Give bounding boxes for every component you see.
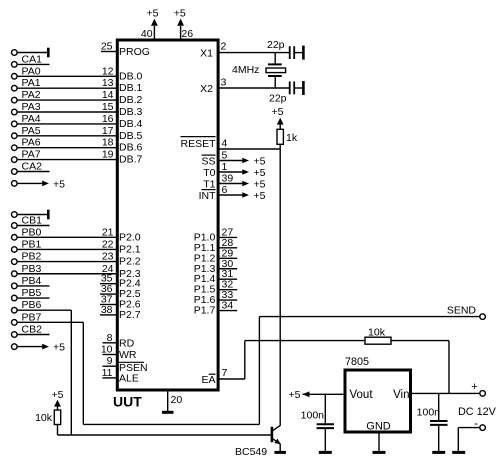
terminal circle PA3 [12, 109, 18, 115]
svg-text:38: 38 [101, 304, 113, 316]
wire PB0 to pin 21 [17, 236, 116, 238]
pin 2 wire (X1) [219, 52, 289, 54]
wire PA2 to pin 14 [17, 99, 116, 101]
svg-text:1k: 1k [286, 132, 298, 144]
svg-text:RD: RD [119, 337, 135, 349]
U2 GND lead [378, 434, 380, 452]
terminal circle PB0 [12, 235, 18, 241]
node RESET to transistor collector wire [279, 149, 281, 425]
wire PB7 vertical drop [82, 322, 84, 424]
svg-text:INT: INT [199, 190, 217, 202]
+5 arrow (INT) [242, 192, 249, 198]
terminal circle PB2 [12, 259, 18, 265]
svg-text:EA: EA [201, 374, 215, 386]
ground (C in) [432, 451, 445, 454]
pin 11 stub (ALE) [103, 377, 117, 379]
T-bar terminator (CA1 row) [47, 48, 50, 58]
svg-text:4: 4 [222, 138, 228, 150]
svg-text:8: 8 [107, 332, 113, 344]
svg-text:+: + [471, 381, 477, 393]
svg-text:P1.7: P1.7 [194, 305, 216, 317]
svg-text:13: 13 [102, 77, 114, 89]
wire CA1 stub [17, 63, 49, 65]
svg-text:PB7: PB7 [22, 311, 42, 323]
terminal circle +5 supply (upper) [12, 181, 18, 187]
svg-text:34: 34 [222, 300, 234, 312]
pin 27 stub (P1.0) [219, 236, 237, 238]
svg-text:+5: +5 [53, 178, 65, 190]
pin 39 wire (T1) [219, 183, 243, 185]
capacitor C bottom 22p right plate [293, 82, 295, 95]
svg-text:7805: 7805 [345, 356, 369, 368]
wire to T terminator (CA1 row) [17, 52, 47, 54]
svg-text:PROG: PROG [119, 46, 150, 58]
svg-text:18: 18 [102, 137, 114, 149]
svg-text:22p: 22p [269, 93, 287, 105]
svg-text:PA0: PA0 [22, 65, 41, 77]
svg-text:+5: +5 [53, 342, 65, 354]
svg-text:26: 26 [181, 28, 193, 40]
svg-text:PB4: PB4 [22, 275, 42, 287]
pin 28 stub (P1.1) [219, 247, 237, 249]
+5 arrow (above R 1k) [277, 118, 284, 125]
pin 10 stub (WR) [103, 354, 117, 356]
C 100n (in) top plate [430, 420, 448, 422]
svg-text:CB1: CB1 [22, 215, 43, 227]
pin 36 stub [100, 293, 116, 295]
wire PA3 to pin 15 [17, 111, 116, 113]
+5 arrow (above R 10k base) [54, 400, 61, 407]
+5 arrow (SS) [242, 158, 249, 164]
ground (emitter) [274, 451, 286, 454]
wire PB6 horizontal [17, 309, 71, 311]
svg-text:21: 21 [102, 226, 114, 238]
crystal body [266, 68, 286, 73]
svg-text:9: 9 [107, 355, 113, 367]
wire emitter to ground [279, 444, 281, 452]
crystal bottom lead [274, 76, 276, 88]
wire PB1 to pin 22 [17, 248, 116, 250]
C 100n (out) bottom plate [317, 427, 334, 429]
svg-text:22p: 22p [267, 39, 285, 51]
terminal circle PA7 [12, 157, 18, 163]
svg-text:UUT: UUT [113, 394, 142, 410]
resistor R 10k (base) body [54, 410, 60, 425]
pin 40 Vcc lead [153, 26, 155, 39]
svg-text:SEND: SEND [447, 305, 477, 317]
terminal circle CB2 [12, 332, 18, 338]
R 1k top lead [279, 124, 281, 129]
terminal circle PB3 [12, 271, 18, 277]
svg-text:PB1: PB1 [22, 238, 42, 250]
svg-text:+5: +5 [254, 190, 266, 202]
pin 7 wire (EA) [219, 378, 245, 380]
wire PA0 to pin 12 [17, 75, 116, 77]
wire PA1 to pin 13 [17, 87, 116, 89]
pin 33 stub (P1.6) [219, 299, 237, 301]
terminal circle SEND [480, 314, 486, 320]
svg-text:DB.0: DB.0 [119, 70, 143, 82]
wire PB7 under chip [83, 423, 259, 425]
svg-text:Vin: Vin [393, 389, 409, 401]
svg-text:14: 14 [102, 89, 114, 101]
terminal circle (CA1 strobe input) [12, 50, 18, 56]
svg-text:RESET: RESET [180, 138, 216, 150]
wire Vin [412, 392, 480, 394]
svg-text:1: 1 [222, 161, 228, 173]
wire to +5 (lower) [17, 346, 42, 348]
wire base feed [58, 434, 271, 436]
svg-text:+5: +5 [174, 8, 186, 20]
transistor Q1 emitter [273, 439, 280, 444]
resistor R 1k body [277, 129, 283, 144]
capacitor C top 22p right plate [293, 46, 295, 59]
pin 8 stub (RD) [103, 342, 117, 344]
svg-text:CA2: CA2 [22, 161, 43, 173]
terminal circle PB4 [12, 283, 18, 289]
svg-text:X1: X1 [200, 48, 213, 60]
svg-text:WR: WR [119, 349, 137, 361]
svg-text:25: 25 [101, 41, 113, 53]
svg-text:+5: +5 [254, 156, 266, 168]
terminal circle PA0 [12, 74, 18, 80]
svg-text:5: 5 [222, 150, 228, 162]
svg-text:PB5: PB5 [22, 287, 42, 299]
wire EA up to 10k [244, 341, 246, 379]
svg-text:P2.0: P2.0 [119, 231, 141, 243]
svg-text:DB.5: DB.5 [119, 130, 143, 142]
wire cap to terminator (bottom) [295, 87, 302, 89]
pin 20 lead [167, 391, 169, 411]
svg-text:10k: 10k [368, 327, 386, 339]
svg-text:DB.2: DB.2 [119, 94, 143, 106]
svg-text:SS: SS [201, 156, 215, 168]
pin 6 wire (INT) [219, 194, 243, 196]
R 10k bottom lead [57, 425, 59, 436]
svg-text:+5: +5 [272, 106, 284, 118]
terminal circle PB6 [12, 307, 18, 313]
svg-text:+5: +5 [289, 389, 301, 401]
crystal top plate [268, 63, 282, 65]
pin 31 stub (P1.4) [219, 278, 237, 280]
svg-text:T0: T0 [203, 167, 215, 179]
transistor Q1 BC549 base bar [271, 427, 274, 442]
svg-text:DB.1: DB.1 [119, 82, 143, 94]
resistor R 10k (EA) body [365, 337, 391, 344]
terminal circle CA2 [12, 169, 18, 175]
R 1k bottom lead [279, 144, 281, 149]
+5 arrow (T1) [242, 181, 249, 187]
pin 9 stub (PSEN) [103, 365, 117, 367]
terminal circle PA2 [12, 97, 18, 103]
svg-text:17: 17 [102, 125, 114, 137]
pin 32 stub (P1.5) [219, 289, 237, 291]
+5 arrow (T0) [242, 169, 249, 175]
+5 arrow (upper left) [42, 181, 49, 187]
terminal circle PA6 [12, 145, 18, 151]
svg-text:10k: 10k [35, 412, 53, 424]
IC UUT body (40-pin microcontroller outline) [117, 40, 218, 390]
svg-text:15: 15 [102, 101, 114, 113]
svg-text:10: 10 [101, 344, 113, 356]
wire PA5 to pin 17 [17, 135, 116, 137]
svg-text:22: 22 [102, 238, 114, 250]
svg-text:40: 40 [141, 28, 153, 40]
transistor Q1 emitter arrow [274, 439, 281, 445]
T-bar terminator (CB1 row) [47, 210, 50, 220]
pin 34 stub (P1.7) [219, 310, 237, 312]
pin 25 stub (PROG) [101, 51, 116, 53]
C 100n (out) top lead [324, 394, 326, 423]
ground (DC-) [452, 451, 465, 454]
pin 29 stub (P1.2) [219, 257, 237, 259]
svg-text:PA6: PA6 [22, 137, 41, 149]
terminal circle (CB1 strobe input) [12, 212, 18, 218]
wire CB2 stub [17, 334, 49, 336]
wire PB6 vertical drop [70, 310, 72, 435]
terminal circle +5 supply (lower) [12, 344, 18, 350]
svg-text:PB3: PB3 [22, 263, 42, 275]
svg-text:DB.7: DB.7 [119, 154, 143, 166]
terminal circle PB1 [12, 247, 18, 253]
C 100n (in) bottom lead [438, 426, 440, 452]
wire Vout [303, 393, 344, 395]
wire PB7 horizontal [17, 321, 83, 323]
+5 arrow (lower left) [42, 344, 49, 350]
svg-text:CB2: CB2 [22, 324, 43, 336]
svg-text:DB.6: DB.6 [119, 142, 143, 154]
svg-text:100n: 100n [417, 406, 441, 418]
svg-text:39: 39 [222, 173, 234, 185]
svg-text:Vout: Vout [350, 389, 374, 401]
svg-text:6: 6 [222, 184, 228, 196]
ground (U2) [373, 451, 386, 454]
terminal circle DC+ [480, 391, 486, 397]
svg-text:P2.2: P2.2 [119, 256, 141, 268]
svg-text:PA5: PA5 [22, 125, 41, 137]
svg-text:2: 2 [221, 41, 227, 53]
svg-text:PB0: PB0 [22, 226, 42, 238]
wire PB5 stub [17, 297, 49, 299]
pin 3 wire (X2) [219, 87, 289, 89]
svg-text:P2.7: P2.7 [119, 309, 141, 321]
svg-text:23: 23 [102, 251, 114, 263]
svg-text:T1: T1 [203, 179, 215, 191]
crystal X 4MHz top lead [274, 53, 276, 64]
svg-text:+5: +5 [254, 167, 266, 179]
terminal circle CA1 [12, 62, 18, 68]
terminal circle PB7 [12, 320, 18, 326]
pin 38 stub [100, 314, 116, 316]
wire PB2 to pin 23 [17, 261, 116, 263]
terminal circle DC- [480, 425, 486, 431]
ground (C out) [319, 451, 332, 454]
svg-text:20: 20 [171, 394, 183, 406]
svg-text:7: 7 [222, 367, 228, 379]
transistor Q1 collector [273, 425, 281, 430]
wire PA6 to pin 18 [17, 147, 116, 149]
+5 arrow (Vout) [303, 391, 310, 397]
pin 4 wire (RESET) [219, 148, 280, 150]
svg-text:PA7: PA7 [22, 149, 41, 161]
terminal circle PA5 [12, 133, 18, 139]
wire PA4 to pin 16 [17, 123, 116, 125]
wire to T terminator (CB1 row) [17, 214, 47, 216]
wire 10k down to Vin node [448, 341, 450, 394]
svg-text:PB6: PB6 [22, 299, 42, 311]
wire SEND horizontal [259, 316, 479, 318]
svg-text:+5: +5 [147, 8, 159, 20]
svg-text:P2.1: P2.1 [119, 243, 141, 255]
capacitor C top 22p left plate [289, 46, 291, 59]
wire CA2 stub [17, 171, 49, 173]
regulator U2 7805 body [345, 370, 411, 432]
wire cap to terminator (top) [295, 52, 302, 54]
svg-text:GND: GND [366, 421, 391, 433]
wire DC- down [457, 428, 459, 452]
+5 arrow pin 40 [151, 19, 158, 26]
wire 10k right segment [391, 340, 449, 342]
terminal circle CB1 [12, 223, 18, 229]
wire 10k left segment [245, 340, 365, 342]
C 100n (out) bottom lead [324, 429, 326, 451]
wire CB1 stub [17, 225, 49, 227]
wire PA7 to pin 19 [17, 159, 116, 161]
svg-text:16: 16 [102, 113, 114, 125]
svg-text:X2: X2 [200, 83, 213, 95]
svg-text:+5: +5 [52, 389, 64, 401]
svg-text:CA1: CA1 [22, 53, 43, 65]
T-bar terminator (bottom cap) [302, 81, 305, 95]
C 100n (in) top lead [438, 393, 440, 420]
wire to +5 (upper) [17, 182, 42, 184]
R 10k base top lead [57, 406, 59, 410]
terminal circle PA1 [12, 85, 18, 91]
pin 5 wire (SS) [219, 160, 243, 162]
wire PB3 to pin 24 [17, 273, 116, 275]
svg-text:PB2: PB2 [22, 251, 42, 263]
svg-text:100n: 100n [301, 409, 325, 421]
T-bar terminator (top cap) [302, 46, 305, 60]
svg-text:11: 11 [102, 367, 113, 379]
pin 1 wire (T0) [219, 171, 243, 173]
svg-text:12: 12 [102, 65, 114, 77]
svg-text:ALE: ALE [119, 372, 139, 384]
svg-text:PA4: PA4 [22, 113, 41, 125]
wire PB4 stub [17, 285, 49, 287]
svg-text:BC549: BC549 [235, 446, 267, 458]
svg-text:PA1: PA1 [22, 77, 41, 89]
+5 arrow pin 26 [177, 19, 184, 26]
C 100n (out) top plate [317, 423, 334, 425]
crystal bottom plate [268, 75, 282, 77]
svg-text:+5: +5 [254, 179, 266, 191]
svg-text:19: 19 [102, 149, 114, 161]
pin 35 stub [100, 283, 116, 285]
svg-text:PA3: PA3 [22, 101, 41, 113]
svg-text:3: 3 [221, 77, 227, 89]
terminal circle PB5 [12, 295, 18, 301]
ground (pin 20) [162, 411, 174, 414]
capacitor C bottom 22p left plate [289, 82, 291, 95]
svg-text:4MHz: 4MHz [232, 64, 259, 76]
pin 37 stub [100, 304, 116, 306]
C 100n (in) bottom plate [430, 424, 448, 426]
pin 30 stub (P1.3) [219, 268, 237, 270]
wire SEND riser [258, 317, 260, 425]
wire DC- horizontal [458, 427, 480, 429]
svg-text:PA2: PA2 [22, 89, 41, 101]
pin 26 Vcc lead [180, 26, 182, 39]
svg-text:DB.4: DB.4 [119, 118, 143, 130]
terminal circle PA4 [12, 121, 18, 127]
svg-text:DB.3: DB.3 [119, 106, 143, 118]
